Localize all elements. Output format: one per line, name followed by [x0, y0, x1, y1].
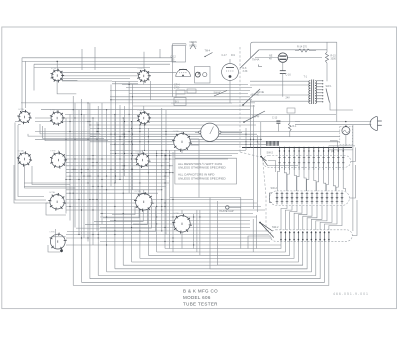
wire	[35, 117, 252, 119]
plate cap wire	[229, 206, 241, 208]
wire	[143, 106, 145, 112]
wire	[67, 207, 156, 232]
wire	[161, 108, 163, 231]
svg-text:SW-4C: SW-4C	[214, 92, 222, 95]
pilot lamp PL-1 filament	[343, 130, 348, 133]
tube V15 plate	[226, 67, 234, 69]
junction	[298, 147, 300, 149]
plug P-1 body	[370, 116, 377, 130]
wire	[336, 42, 338, 121]
transformer tap wire	[317, 83, 323, 85]
wire	[66, 158, 228, 160]
junction	[313, 147, 315, 149]
plug P-1 prong 1	[378, 120, 382, 122]
wire	[198, 139, 200, 198]
wire	[110, 90, 250, 92]
wire	[260, 122, 262, 155]
wire	[24, 182, 169, 184]
wire	[90, 141, 340, 143]
wire	[62, 78, 130, 80]
junction	[279, 147, 281, 149]
svg-text:TUBE TESTER: TUBE TESTER	[183, 302, 218, 307]
wafer contact column	[318, 148, 320, 171]
wire	[48, 245, 60, 252]
wire	[316, 205, 327, 230]
wire	[320, 205, 332, 230]
wire	[65, 118, 67, 214]
wafer contact column	[308, 148, 310, 171]
switch SW-1 lever	[326, 89, 330, 103]
meter M-1 body	[201, 123, 219, 141]
socket V11 (large 8-pin)	[134, 192, 154, 212]
wafer contact column	[303, 148, 305, 171]
wire	[150, 81, 152, 100]
wire	[74, 103, 76, 228]
wire	[85, 207, 147, 225]
wire	[159, 49, 161, 58]
svg-text:SW-4E: SW-4E	[257, 91, 265, 94]
wire	[132, 242, 299, 263]
switch SW-4E corner	[258, 65, 262, 67]
wire	[90, 136, 340, 138]
svg-text:SW-1: SW-1	[326, 85, 333, 88]
wire	[15, 123, 46, 201]
svg-text:24V: 24V	[286, 97, 291, 100]
wire	[66, 244, 281, 246]
svg-text:5 PIN: 5 PIN	[49, 232, 55, 234]
svg-text:9 PIN: 9 PIN	[138, 68, 144, 70]
wire	[277, 123, 279, 131]
wire	[76, 207, 151, 228]
transformer tap wire	[317, 89, 323, 91]
wire	[14, 165, 48, 203]
wire	[307, 205, 317, 230]
wire	[250, 84, 309, 86]
wire	[250, 100, 309, 102]
transformer tap wire	[317, 98, 323, 100]
neon NE-51 lead	[192, 42, 194, 45]
wire	[133, 223, 250, 225]
tube V14 envelope	[176, 69, 191, 76]
svg-text:OCTAL: OCTAL	[173, 130, 180, 133]
svg-text:R-14 270: R-14 270	[297, 46, 308, 49]
transformer tap wire	[317, 92, 323, 94]
wire	[191, 144, 200, 146]
wire	[325, 205, 338, 230]
wire	[73, 242, 329, 286]
wire	[124, 106, 126, 176]
wire	[82, 242, 325, 283]
wire control box left	[173, 44, 187, 97]
wire	[147, 128, 149, 255]
wire	[66, 168, 169, 170]
neon NE-48 electrode 2	[279, 58, 286, 60]
wire	[57, 150, 59, 153]
wire	[172, 152, 174, 252]
neon NE-48 body	[278, 53, 287, 62]
svg-text:3.3K: 3.3K	[243, 70, 248, 73]
wire	[69, 114, 71, 220]
svg-text:466-051-9-001: 466-051-9-001	[333, 292, 369, 296]
wire	[89, 103, 91, 279]
switch SW-4G pivot	[242, 104, 244, 106]
wire	[66, 192, 158, 194]
wire	[139, 125, 141, 258]
wire	[56, 193, 58, 195]
wire	[106, 110, 108, 272]
jack J1	[195, 72, 200, 77]
wire	[143, 81, 145, 84]
tube V15 grid	[226, 70, 234, 72]
wire	[142, 150, 144, 154]
wire	[21, 102, 255, 104]
wire	[218, 201, 303, 265]
wire	[295, 50, 298, 52]
wafer SW-2B outline	[269, 191, 349, 206]
wire jogs	[277, 170, 345, 191]
svg-text:OCTAL: OCTAL	[18, 108, 25, 111]
capacitor C-12 box	[172, 46, 186, 63]
battery B-1 box	[174, 98, 186, 106]
wire	[181, 210, 183, 214]
wire	[195, 131, 199, 133]
wire	[157, 242, 286, 253]
wafer SW-2A contact dots	[278, 150, 344, 163]
socket V10 (8-pin)	[48, 193, 66, 211]
svg-text:MODEL 606: MODEL 606	[183, 295, 211, 300]
wire	[100, 216, 257, 218]
wire	[329, 205, 342, 230]
svg-text:9 PIN: 9 PIN	[137, 110, 143, 112]
svg-text:B & K MFG CO: B & K MFG CO	[183, 289, 218, 294]
tube V15 envelope	[222, 64, 239, 81]
power cord line 2	[295, 124, 371, 126]
wire	[259, 49, 327, 51]
wafer contact column	[288, 148, 290, 171]
junction	[342, 147, 344, 149]
svg-text:OCTAL: OCTAL	[135, 190, 142, 193]
svg-text:C-13: C-13	[272, 117, 278, 120]
wire	[90, 124, 256, 126]
socket V13 keyway	[60, 249, 63, 252]
wire	[110, 99, 252, 101]
wire	[25, 165, 76, 188]
wire	[90, 127, 218, 129]
resistor R-1 zigzag	[288, 123, 291, 131]
junction	[57, 61, 58, 62]
svg-text:OCTAL: OCTAL	[135, 150, 142, 153]
wire	[112, 81, 138, 83]
junction	[318, 147, 320, 149]
wire	[46, 202, 257, 204]
junction dots	[65, 84, 261, 246]
wire	[185, 44, 187, 46]
resistor R-14 zigzag	[298, 49, 310, 52]
wire	[98, 242, 316, 276]
transformer tap dot	[322, 95, 323, 96]
neon NE-48 electrode 1	[279, 55, 286, 57]
wire	[55, 229, 57, 248]
wire	[62, 75, 150, 77]
wire	[289, 114, 291, 123]
wire	[282, 74, 284, 97]
transformer tap wire	[317, 86, 323, 88]
svg-text:C-16: C-16	[286, 74, 292, 77]
svg-text:SW-2: SW-2	[272, 225, 279, 229]
transformer tap wire	[317, 95, 323, 97]
wire	[256, 135, 258, 212]
capacitor C-14 box	[287, 108, 295, 113]
pilot lamp contact	[345, 125, 347, 127]
wire	[165, 110, 167, 235]
svg-text:9 PIN: 9 PIN	[50, 110, 56, 112]
switch SW-4F lever	[244, 111, 265, 122]
transformer tap dot	[322, 80, 323, 81]
wire	[66, 161, 169, 163]
jack box	[195, 67, 211, 84]
svg-text:SW-2: SW-2	[271, 186, 278, 190]
jack J1 wiper	[198, 72, 200, 74]
wire	[25, 61, 27, 108]
wire	[90, 133, 257, 135]
wire	[131, 121, 133, 262]
wire	[110, 96, 250, 98]
wire	[15, 121, 20, 123]
wire	[112, 83, 138, 85]
wire	[175, 94, 177, 98]
wire	[326, 42, 328, 52]
wire	[169, 150, 171, 249]
junction	[289, 147, 291, 149]
wire	[110, 85, 112, 187]
wafer contact column	[293, 148, 295, 171]
socket V12 (8-pin)	[172, 214, 192, 234]
capacitor C-16 plate 2	[280, 73, 286, 75]
wire	[285, 205, 292, 230]
wire	[143, 190, 145, 194]
wire	[90, 242, 320, 279]
svg-text:NE-51: NE-51	[190, 44, 198, 47]
wire	[119, 105, 121, 180]
wire	[21, 58, 23, 112]
wire	[28, 134, 96, 136]
wire	[242, 147, 352, 149]
socket V2 (9-pin)	[137, 69, 151, 83]
wire	[329, 149, 353, 151]
capacitor C-13 plate 1	[276, 120, 280, 122]
wire	[252, 219, 254, 252]
capacitor C-13 plate 2	[276, 122, 280, 124]
svg-text:9 PIN: 9 PIN	[50, 151, 56, 153]
wire	[349, 165, 355, 198]
wire	[33, 64, 35, 90]
wire	[129, 93, 248, 95]
transformer T-1 secondary winding	[315, 81, 317, 104]
wire	[51, 236, 66, 238]
wire	[97, 106, 99, 276]
wafer contact column	[323, 148, 325, 171]
wire	[330, 141, 337, 148]
wire	[40, 124, 100, 134]
wire	[100, 230, 269, 232]
transformer T-1 core 2	[313, 80, 315, 105]
plate cap terminal	[226, 206, 229, 209]
wire	[115, 82, 117, 184]
wire	[148, 242, 289, 256]
junction	[308, 147, 310, 149]
socket V4 (9-pin)	[50, 111, 65, 126]
wire	[43, 126, 105, 138]
wafer contact column	[337, 148, 339, 171]
wire	[110, 149, 246, 151]
svg-text:PLATE CAP: PLATE CAP	[220, 209, 234, 213]
transformer tap wire	[317, 80, 323, 82]
wire	[255, 57, 278, 59]
wire	[101, 103, 103, 224]
wire	[41, 109, 250, 111]
wire	[66, 175, 169, 177]
wire	[311, 205, 322, 230]
wire	[56, 110, 58, 113]
wire	[268, 165, 299, 167]
socket V9 (8-pin)	[172, 132, 192, 152]
wire	[294, 205, 302, 230]
wire	[56, 61, 58, 70]
tube V14 grid	[179, 72, 187, 74]
wire	[57, 81, 76, 94]
wafer SW-2C contacts	[280, 231, 330, 242]
wire	[18, 124, 21, 126]
wire	[351, 148, 356, 162]
wire	[81, 49, 83, 70]
transformer tap dot	[322, 89, 323, 90]
wire	[34, 63, 170, 65]
wire	[229, 80, 231, 103]
wafer contact column	[279, 148, 281, 171]
wire	[100, 227, 250, 229]
wafer contact column	[283, 148, 285, 171]
wire	[94, 207, 143, 221]
wire	[114, 114, 116, 269]
wire	[170, 197, 241, 199]
wafer SW-2C wiper	[260, 223, 274, 238]
switch TM-4A lever	[240, 50, 259, 69]
svg-text:R-1: R-1	[293, 125, 298, 128]
wire	[282, 62, 284, 71]
junction	[323, 147, 325, 149]
wire	[255, 215, 257, 249]
svg-text:OCTAL: OCTAL	[49, 191, 56, 194]
wire	[66, 172, 173, 174]
wire	[66, 189, 162, 191]
switch SW-4C lever	[214, 91, 227, 97]
wiper pivot	[260, 156, 262, 158]
wire	[210, 198, 307, 269]
svg-text:SW-4F: SW-4F	[252, 116, 260, 119]
wire	[245, 128, 247, 150]
wire	[156, 150, 158, 252]
jack J2	[203, 73, 207, 77]
wire	[35, 131, 340, 133]
junction	[333, 147, 335, 149]
junction	[293, 147, 295, 149]
wire	[115, 242, 307, 269]
switch TM-4 pivot	[204, 56, 205, 57]
wire	[92, 118, 94, 245]
wire	[32, 166, 70, 185]
wire	[35, 121, 300, 123]
wire	[329, 145, 355, 147]
wire	[94, 47, 96, 70]
socket V1 (9-pin)	[51, 69, 65, 83]
pilot lamp PL-1 dashed box	[340, 126, 353, 144]
wire	[72, 96, 74, 285]
wire	[107, 242, 312, 272]
wire	[66, 237, 272, 239]
junction	[345, 121, 346, 122]
wire	[123, 242, 303, 266]
wire	[248, 236, 270, 249]
socket V5 (9-pin)	[137, 111, 151, 125]
wire	[110, 143, 266, 145]
wire	[229, 59, 231, 64]
notes box border	[175, 150, 237, 184]
wire	[66, 199, 253, 201]
resistor R-2 box	[187, 89, 196, 93]
linkage dash diagonal	[240, 152, 266, 232]
wire	[199, 210, 201, 255]
wire	[62, 79, 78, 81]
wire	[100, 241, 270, 243]
wire	[326, 63, 328, 81]
svg-text:2700: 2700	[174, 87, 180, 90]
wire	[87, 103, 89, 242]
transformer tap dot	[322, 83, 323, 84]
linkage dash line	[239, 47, 241, 152]
plug P-1 prong 2	[378, 124, 382, 126]
wire	[126, 87, 252, 89]
wire	[66, 155, 232, 157]
wire	[268, 161, 276, 173]
wire	[65, 113, 336, 115]
wire	[34, 67, 150, 69]
svg-text:UNLESS OTHERWISE SPECIFIED: UNLESS OTHERWISE SPECIFIED	[178, 166, 226, 170]
wire	[83, 114, 85, 238]
wire	[112, 207, 135, 215]
wire	[66, 165, 173, 167]
wiper pivot	[259, 222, 261, 224]
junction	[284, 147, 286, 149]
wire	[122, 84, 248, 86]
resistor R-3 box	[176, 90, 185, 94]
wire	[352, 200, 357, 236]
wire	[35, 138, 262, 140]
wire	[181, 232, 183, 249]
wire	[281, 205, 287, 230]
wire	[221, 131, 242, 133]
svg-text:TM-4: TM-4	[205, 50, 211, 53]
wire	[62, 80, 112, 82]
wire	[250, 80, 309, 82]
wire	[164, 153, 166, 249]
plate cap riser	[240, 198, 242, 249]
wafer contact column	[332, 148, 334, 171]
svg-text:OCTAL: OCTAL	[18, 150, 25, 153]
svg-text:3300: 3300	[331, 58, 337, 61]
junction	[338, 147, 340, 149]
wire	[345, 135, 347, 146]
socket V6 (8-pin)	[17, 151, 32, 166]
